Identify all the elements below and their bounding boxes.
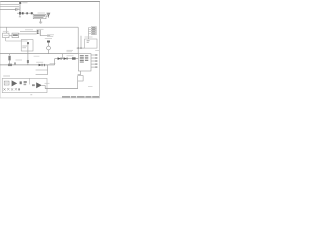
diode D2 xyxy=(37,32,40,34)
ground stub under node xyxy=(19,15,21,17)
wire battery right xyxy=(95,50,99,52)
capacitor C8 xyxy=(20,81,22,84)
wire y41 feed xyxy=(6,40,28,42)
text above diode D5 xyxy=(36,61,43,63)
text near module bottom xyxy=(34,55,40,57)
wire input bus C xyxy=(0,9,15,11)
microphone MK1 xyxy=(47,46,51,50)
resistor R7 xyxy=(24,81,27,83)
text net name right of junction xyxy=(50,63,56,65)
wire C1 to node xyxy=(17,9,20,11)
wire filter to antenna xyxy=(46,15,48,17)
text above SW1 xyxy=(3,30,9,32)
pin 1 wire xyxy=(91,54,96,56)
text above diode row xyxy=(67,49,74,51)
wire out drop xyxy=(44,85,46,88)
wire stub to IC top xyxy=(77,48,79,54)
wire cap drop lower xyxy=(9,60,11,65)
wire stub y70 xyxy=(36,69,48,71)
wire mic to bus xyxy=(48,50,50,54)
text inside SW1 xyxy=(4,34,8,36)
pin 3 wire xyxy=(91,60,96,62)
pin 2 label xyxy=(95,57,97,58)
title block text bar xyxy=(62,96,99,97)
capacitor C3 xyxy=(26,12,28,14)
wire SW1 bottom drop xyxy=(5,38,7,41)
regulator U3 box xyxy=(12,33,19,38)
wire module drop xyxy=(27,44,29,65)
text diode names xyxy=(67,55,74,57)
op-amp U4 xyxy=(12,80,18,86)
wire IC bottom horizontal xyxy=(78,74,81,76)
diode D5 xyxy=(39,64,43,67)
capacitor C7 xyxy=(44,64,45,66)
wire diode row xyxy=(55,58,79,60)
net label flag 1 xyxy=(89,27,97,29)
wire input bus A xyxy=(0,3,19,5)
capacitor C1 xyxy=(16,9,17,11)
inductor L2 xyxy=(31,12,33,14)
wire mid bus xyxy=(0,53,78,55)
wire IC bottom drop xyxy=(80,71,82,75)
wire main bus VDD xyxy=(0,26,78,28)
filter box U2 xyxy=(33,14,46,18)
op-amp U5 xyxy=(36,82,42,88)
wire second drop xyxy=(80,36,82,48)
inductor L1 xyxy=(19,12,21,15)
wire SW1 to U3 xyxy=(9,34,12,36)
text near low bus xyxy=(16,59,23,61)
text inside module row1 xyxy=(22,45,27,47)
text right of connector xyxy=(88,86,93,88)
ground cluster mark 1 xyxy=(3,88,5,90)
net label flag 3 xyxy=(89,31,97,33)
crystal Y1 xyxy=(47,41,50,43)
text output net xyxy=(45,82,50,84)
wire vcc corner drop xyxy=(77,27,79,48)
pin 5 wire xyxy=(91,66,96,68)
text crystal value row1 xyxy=(47,34,54,36)
text L1 value xyxy=(15,7,21,9)
component inside module xyxy=(27,42,29,44)
ground cluster mark 2 xyxy=(7,88,9,90)
pin 4 wire xyxy=(91,63,96,65)
inductor L3 xyxy=(72,57,76,59)
wire filter down xyxy=(40,19,42,22)
net label flag 4 xyxy=(89,33,97,35)
wire diode junction vertical xyxy=(39,30,41,36)
border frame bottom xyxy=(0,97,100,99)
resistor R1 vertical xyxy=(19,4,21,13)
pin 5 label xyxy=(95,67,97,68)
capacitor C5 xyxy=(8,56,10,61)
diode D4 xyxy=(64,57,68,60)
wire low bus to drop xyxy=(45,64,48,66)
wire opamp out xyxy=(42,84,45,86)
border frame left xyxy=(0,2,1,99)
ground cluster mark 4 xyxy=(15,88,17,90)
wire low bus xyxy=(0,64,55,66)
text above audio box xyxy=(3,75,10,77)
wire U3 out lower xyxy=(19,33,37,35)
audio amp box outline xyxy=(2,78,47,92)
border frame top xyxy=(0,1,100,3)
wire audio out long xyxy=(45,88,77,90)
wire bus branch down xyxy=(62,54,64,59)
text inside preamp box xyxy=(5,82,8,84)
text inside U3 xyxy=(13,34,18,36)
text above diodes xyxy=(37,28,44,30)
junction marks xyxy=(14,62,16,64)
pin 3 label xyxy=(95,60,97,61)
ground GND1 xyxy=(39,22,42,23)
node junction dots xyxy=(78,47,79,48)
text above filter box xyxy=(38,12,46,14)
wire stub y74 xyxy=(36,74,48,76)
preamp input box xyxy=(4,81,9,85)
wire cap drop upper xyxy=(9,54,11,56)
wire labels column xyxy=(88,28,90,40)
resistor R8 xyxy=(24,84,27,86)
text inside module row2 xyxy=(22,47,26,49)
text VCC label xyxy=(22,2,27,4)
text IC pin labels right column xyxy=(85,55,88,61)
tick above bottom border xyxy=(30,94,32,96)
IC U1 box xyxy=(78,54,91,71)
capacitor C2 xyxy=(22,12,24,14)
resistor R5 on vertical xyxy=(27,60,29,63)
text above battery box xyxy=(85,36,93,38)
wire feedback vertical xyxy=(29,78,31,84)
wire drop x47 xyxy=(47,65,49,75)
ground cluster mark 3 xyxy=(11,88,13,90)
text above diode row2 xyxy=(67,51,73,53)
label VCC flag xyxy=(19,2,21,4)
wire junction horizontal xyxy=(77,47,85,49)
pin 4 label xyxy=(95,64,97,65)
wire input bus B xyxy=(0,6,19,8)
battery box BT1 xyxy=(85,39,97,48)
text net label mid xyxy=(25,29,33,31)
module box M1 xyxy=(21,40,33,51)
text crystal value row2 xyxy=(47,36,53,38)
antenna ANT1 xyxy=(47,13,50,18)
ground marks xyxy=(19,16,21,18)
battery marks inside xyxy=(87,41,90,42)
diode D3 xyxy=(58,57,62,60)
border frame right xyxy=(98,2,100,99)
switch SW1 box xyxy=(3,33,9,38)
wire RF chain xyxy=(17,12,33,14)
capacitor C10 xyxy=(18,88,20,90)
pin 2 wire xyxy=(91,57,96,59)
text crystal value row3 xyxy=(45,38,52,40)
connector J2 box xyxy=(78,76,83,81)
wire to crystal xyxy=(40,35,50,37)
wire connector down xyxy=(77,81,79,89)
text filter label row2 xyxy=(34,16,43,19)
diode D1 xyxy=(37,30,40,32)
capacitor C6 on low bus xyxy=(8,64,12,66)
net label flag 2 xyxy=(89,29,97,31)
text filter label row1 xyxy=(34,15,45,16)
text IC pin labels left column xyxy=(80,55,84,62)
wire crystal to mic xyxy=(48,43,50,47)
wire bus drop to SW1 xyxy=(6,27,8,33)
wire low bus riser xyxy=(54,59,56,65)
pin 1 label xyxy=(95,54,97,55)
capacitor C9 xyxy=(32,84,35,86)
wire U3 out upper xyxy=(20,31,37,33)
